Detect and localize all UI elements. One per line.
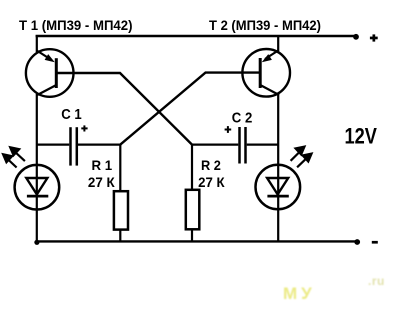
svg-text:МУ: МУ [283,284,316,303]
LED D2 circle [255,165,300,210]
resistor R2 body [186,190,200,230]
svg-text:.ru: .ru [368,274,385,288]
wire T2 collector down through LED2 to bottom rail [277,94,279,241]
LED D2 light arrow 1 [291,145,307,161]
transistor Q2 emitter diagonal [265,51,278,60]
svg-text:R 1: R 1 [92,157,113,173]
capacitor C2 left plate [238,127,241,164]
label - terminal [372,241,378,244]
svg-text:27 К: 27 К [88,174,115,190]
capacitor C2 right plate [244,127,247,164]
transistor Q2 base bar [259,58,262,88]
capacitor C1 left wire [36,144,69,146]
wire bottom rail [36,240,357,242]
svg-text:C 2: C 2 [232,110,253,126]
LED D1 triangle [26,178,47,194]
transistor Q1 collector diagonal [37,85,56,95]
transistor Q1 circle [26,49,74,97]
wire R1 bottom lead [119,230,121,242]
wire R2 top lead [191,144,193,191]
LED D2 cathode bar [267,195,288,198]
transistor Q2 circle [242,49,290,97]
svg-text:12V: 12V [345,124,378,149]
label + terminal [370,34,378,41]
wire T1 base to R2 junction (cross-coupling) [57,73,192,145]
capacitor C2 right wire [247,144,279,146]
wire T1 collector down through LED1 to bottom rail [36,94,38,241]
node top-right terminal dot [353,34,359,40]
svg-text:C 1: C 1 [61,107,81,123]
wire T1 emitter to top rail [36,35,38,52]
capacitor C2 left wire [191,144,238,146]
LED D1 circle [15,165,60,210]
node bottom-right terminal dot [354,239,360,245]
node bottom-left junction dot [34,240,39,245]
LED D1 cathode bar [27,195,48,198]
LED D1 light arrow 1 [8,146,25,161]
wire R2 bottom lead [191,229,193,241]
wire T2 emitter to top rail [277,35,279,52]
label C1 polarity + [81,125,87,131]
LED D2 light arrow 2 [297,152,313,167]
transistor Q1 emitter diagonal [37,51,50,60]
LED D2 triangle [267,178,288,194]
wire top rail [36,35,356,37]
svg-text:27 К: 27 К [198,174,225,190]
transistor Q1 base bar [55,58,58,88]
capacitor C1 right wire [78,144,121,146]
svg-text:Т 2 (МП39 - МП42): Т 2 (МП39 - МП42) [209,18,321,33]
capacitor C1 left plate [69,127,72,165]
label C2 polarity + [225,126,232,133]
LED D1 light arrow 2 [1,153,16,168]
transistor Q2 collector diagonal [260,85,279,95]
transistor Q1 emitter arrowhead [45,54,55,62]
svg-text:Т 1 (МП39 - МП42): Т 1 (МП39 - МП42) [19,18,133,33]
transistor Q2 emitter arrowhead [262,54,272,62]
capacitor C1 right plate [76,127,79,165]
svg-text:R 2: R 2 [201,157,221,173]
resistor R1 body [114,191,128,229]
wire R1 top lead [119,144,121,192]
wire T2 base to R1 junction (cross-coupling) [120,73,259,145]
